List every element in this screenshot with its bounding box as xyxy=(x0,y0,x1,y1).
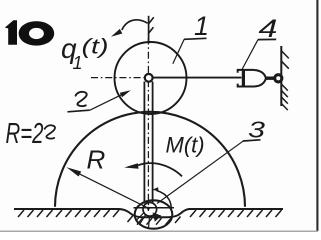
svg-text:1: 1 xyxy=(194,11,209,41)
label q1(t) xyxy=(61,33,109,73)
rod left edge (body 3) xyxy=(143,82,145,204)
horizontal centerline (dash-dot) xyxy=(91,77,144,79)
support hatch tick 1 xyxy=(148,17,154,24)
wall hatch below pin xyxy=(281,84,287,110)
support hatch tick 2 xyxy=(148,27,153,34)
wall hatch above pin xyxy=(282,51,289,69)
svg-text:R=2: R=2 xyxy=(6,118,44,150)
hub filled wedge xyxy=(153,212,162,221)
vertical centerline (dash-dot) xyxy=(147,38,149,212)
hub outer wheel xyxy=(135,200,173,228)
wall pin xyxy=(275,75,282,82)
ground hatching depression xyxy=(128,216,181,225)
big semicircle body xyxy=(55,112,245,207)
rod right edge xyxy=(152,82,154,204)
label r with leader arrow xyxy=(68,90,131,112)
damper piston plate xyxy=(242,69,245,87)
damper rod to wall xyxy=(265,76,275,79)
page rule line right xyxy=(316,0,318,231)
label 1 xyxy=(173,11,209,64)
ground hatching left xyxy=(18,210,119,217)
ground hatching right xyxy=(190,210,282,217)
center pin xyxy=(145,74,153,82)
problem number 10 xyxy=(5,20,54,45)
page bottom edge line xyxy=(0,230,318,232)
svg-text:M(t): M(t) xyxy=(166,133,205,158)
hub spokes xyxy=(136,213,150,229)
wall line xyxy=(280,46,282,106)
q1(t) rotation arc arrow xyxy=(111,20,148,37)
M(t) moment arc arrow xyxy=(124,163,182,176)
label 4 xyxy=(242,15,278,70)
svg-text:3: 3 xyxy=(248,117,265,143)
damper cylinder xyxy=(238,70,266,87)
hub center dot xyxy=(147,207,150,210)
label R with radius arrow xyxy=(67,145,150,209)
ground line with depression xyxy=(14,209,283,217)
hub inner circle xyxy=(143,203,157,217)
label 3 xyxy=(157,117,265,204)
svg-text:R: R xyxy=(87,145,106,175)
small circle (body 1) xyxy=(115,42,187,114)
hub rotation arrow xyxy=(152,187,171,209)
hub axis line xyxy=(134,207,175,209)
link rod to damper xyxy=(150,77,242,79)
svg-text:(t): (t) xyxy=(82,35,109,59)
label R=2r xyxy=(6,118,56,150)
top fixed support line xyxy=(148,16,150,44)
